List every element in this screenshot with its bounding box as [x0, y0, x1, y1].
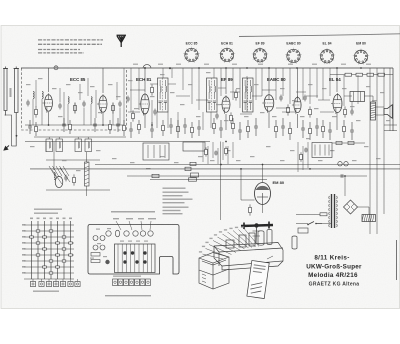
wire	[316, 68, 318, 98]
capacitor tone	[304, 148, 308, 153]
value label	[330, 150, 335, 151]
tube EABC80 demodulator/AF	[262, 93, 274, 113]
wire	[297, 114, 299, 128]
tag hanger line	[267, 256, 273, 259]
resistor volume divider	[287, 104, 290, 115]
title Ansicht von unten gesehen	[111, 211, 155, 213]
wire	[45, 142, 47, 153]
tube EF89 IF amplifier	[220, 95, 230, 114]
value label	[206, 72, 211, 73]
capacitor	[93, 118, 97, 132]
wire	[116, 82, 118, 100]
pointer number labels	[199, 251, 202, 252]
wire detector	[164, 145, 166, 158]
wire trimmer	[55, 66, 57, 68]
value label	[280, 88, 285, 89]
wire	[232, 68, 234, 100]
resistor	[138, 120, 141, 134]
coil winding	[59, 142, 60, 148]
wire speaker return	[376, 114, 385, 116]
junction node B+	[169, 68, 171, 70]
value label	[244, 116, 249, 117]
coil L1 UKW input	[33, 91, 34, 98]
capacitor AF	[214, 151, 218, 156]
coil hole 2	[93, 245, 98, 250]
trimmer screw	[135, 260, 138, 263]
value label	[66, 84, 71, 85]
value label	[272, 116, 277, 117]
leader lines	[116, 221, 151, 230]
pointer leader lines fan	[203, 229, 260, 259]
wire	[306, 95, 318, 97]
trimmer screw	[131, 251, 134, 254]
wire	[87, 137, 89, 139]
grommet	[105, 260, 109, 264]
value label	[210, 160, 215, 161]
wire B+ rail	[369, 68, 371, 220]
capacitor	[58, 103, 62, 110]
wire	[329, 68, 331, 96]
IF transformer can Fi III	[243, 78, 254, 112]
capacitor	[28, 120, 32, 134]
dipole impedance label 240 ohm	[10, 88, 12, 97]
resistor UKW grid	[35, 106, 38, 117]
value label	[314, 108, 319, 109]
output transformer	[350, 92, 365, 102]
tone control network box	[312, 143, 332, 158]
wire tone control	[324, 145, 326, 156]
value label	[300, 116, 305, 117]
wire	[130, 89, 145, 91]
AVC bus wire	[30, 168, 400, 170]
wire	[343, 75, 345, 106]
value label	[116, 96, 121, 97]
value label	[224, 120, 229, 121]
negative feedback line	[332, 142, 365, 144]
coil winding	[49, 142, 50, 148]
coil	[91, 97, 92, 104]
capacitor AGC	[126, 96, 130, 103]
tuning gang section (hatched)	[85, 162, 90, 186]
wire	[182, 68, 184, 90]
capacitor EF89 cathode	[215, 113, 219, 120]
junction	[246, 67, 248, 69]
wire to speaker	[376, 106, 385, 108]
tuning capacitor block (hatched)	[115, 244, 156, 273]
wire diode	[297, 68, 299, 97]
value label	[98, 112, 103, 113]
wire	[318, 99, 330, 101]
wire	[376, 215, 378, 234]
coil winding	[78, 142, 79, 148]
resistor ECH81 screen	[151, 84, 154, 95]
wire	[79, 84, 81, 100]
antenna symbol	[117, 35, 127, 47]
wire	[369, 220, 371, 234]
wire tube b anode	[102, 68, 104, 93]
value label	[198, 156, 203, 157]
capacitor	[150, 122, 154, 138]
coil winding	[88, 142, 89, 148]
value label	[236, 88, 241, 89]
wire	[202, 112, 204, 130]
wire	[210, 112, 212, 128]
resistor	[309, 122, 312, 140]
wire tube b cathode	[102, 113, 104, 125]
junction	[225, 141, 227, 143]
wire EM80 cathode	[262, 205, 264, 214]
chassis/ground bus wire	[25, 141, 210, 143]
alignment grid chart	[24, 221, 74, 279]
wire	[275, 68, 277, 100]
wire EL84 cathode	[336, 112, 338, 130]
capacitor detector	[279, 95, 283, 102]
value label	[250, 156, 255, 157]
wire	[307, 142, 309, 168]
value label	[236, 160, 241, 161]
wire detector	[147, 145, 149, 158]
value label	[260, 112, 265, 113]
wire	[59, 88, 61, 102]
wire down to chassis view	[220, 142, 222, 221]
value label	[350, 106, 355, 107]
wire	[130, 68, 132, 112]
wire EF89 cathode	[225, 114, 227, 130]
wire	[212, 142, 214, 158]
junction	[336, 67, 338, 69]
wire	[369, 215, 371, 221]
wire	[95, 90, 97, 118]
wire	[151, 100, 153, 128]
IF transformer can Fi I	[158, 78, 169, 112]
wire	[276, 107, 290, 109]
tiny labels along top border	[133, 64, 138, 65]
value label	[322, 88, 327, 89]
value label	[90, 86, 95, 87]
resistor AF grid leak	[309, 106, 312, 117]
capacitor UKW	[26, 100, 30, 107]
capacitor	[328, 122, 332, 140]
terminal strip below chassis	[113, 279, 151, 286]
wire	[112, 103, 114, 125]
wire gang to chassis	[86, 186, 88, 196]
resistor	[343, 120, 346, 138]
trimmer capacitor UKW	[54, 66, 58, 70]
wire detector	[159, 145, 161, 158]
wire tone control	[314, 145, 316, 156]
trimmer screw	[123, 260, 126, 263]
capacitor	[341, 174, 343, 178]
resistor	[109, 120, 112, 134]
wire	[217, 148, 219, 164]
wire	[176, 95, 190, 97]
value label	[332, 116, 337, 117]
pencil line (scan mark)	[239, 34, 400, 37]
electrolytic filter capacitor 50+50uF	[362, 215, 376, 222]
value label	[170, 92, 175, 93]
wire	[232, 142, 234, 158]
junction	[262, 164, 264, 166]
wire	[302, 146, 304, 170]
coil oscillator	[68, 97, 69, 104]
wire AM ground bus	[46, 189, 110, 191]
tube socket bottom view EM 80	[353, 49, 369, 65]
resistor	[247, 120, 250, 138]
wire	[218, 87, 226, 89]
hanging schematic tag	[247, 260, 269, 298]
wire	[123, 68, 125, 125]
fuse	[320, 213, 327, 216]
ferrite rod / oscillator can	[55, 176, 63, 187]
value label	[352, 160, 357, 161]
wire	[12, 145, 17, 147]
wire	[213, 68, 215, 78]
value label	[58, 116, 63, 117]
resistor	[232, 118, 235, 134]
wire	[351, 101, 353, 110]
value label	[96, 150, 101, 151]
leader labels above chassis	[113, 218, 119, 219]
coil filter	[54, 172, 55, 179]
wave band switch contacts	[49, 166, 69, 176]
resistor	[162, 120, 165, 136]
wire	[196, 99, 208, 101]
value label	[254, 84, 259, 85]
B+ decoupling resistor chain	[330, 73, 393, 76]
capacitor	[303, 95, 307, 102]
grid column headers	[30, 218, 33, 220]
resistor	[191, 122, 194, 138]
wire	[220, 68, 222, 96]
grid row markers	[22, 224, 26, 226]
capacitor	[183, 118, 187, 134]
value label	[306, 138, 311, 139]
capacitor	[64, 175, 68, 182]
resistor EF89 screen	[235, 89, 238, 100]
wire	[252, 95, 262, 97]
value label	[180, 104, 185, 105]
value label	[342, 88, 347, 89]
value label	[356, 120, 361, 121]
wire EM80 grid	[240, 169, 242, 200]
resistor	[69, 120, 72, 134]
wire	[150, 83, 158, 85]
coil L2	[42, 91, 43, 98]
wire	[41, 99, 43, 125]
wire	[48, 137, 50, 139]
oscillator coil bump on top border	[143, 65, 151, 68]
wire	[239, 68, 241, 108]
resistor AF	[205, 147, 208, 156]
value label	[76, 170, 81, 171]
ground arrow	[4, 146, 9, 151]
resistor EL84 cathode	[344, 106, 347, 117]
wire	[74, 103, 76, 113]
value label	[38, 78, 43, 79]
wire	[357, 75, 359, 104]
junction	[309, 168, 311, 170]
tube socket bottom view EABC 80	[285, 48, 301, 64]
capacitor	[281, 118, 285, 136]
electrolytic can hole	[115, 230, 119, 237]
heater bus wire	[95, 164, 400, 166]
pilot lamp 1	[338, 162, 342, 166]
dial lamp bracket rects	[91, 253, 100, 257]
value label	[112, 158, 117, 159]
alignment data text block	[163, 188, 186, 189]
resistor EF89 cathode	[230, 112, 233, 123]
IF can hole 1	[100, 236, 105, 241]
value label	[292, 100, 297, 101]
wire tone control	[319, 145, 321, 156]
wire	[230, 91, 240, 93]
wire EL84 anode	[336, 68, 338, 92]
wire	[35, 80, 37, 107]
wire	[246, 76, 248, 112]
junction	[344, 175, 346, 177]
value label	[318, 160, 323, 161]
resistor on return bus	[152, 174, 159, 177]
wire EM80 supply	[262, 165, 264, 183]
resistor feedback	[336, 141, 342, 144]
wire	[53, 142, 55, 171]
resistor on dial lamp line	[189, 178, 197, 181]
junction	[360, 67, 362, 69]
wire tube a cathode	[48, 112, 50, 125]
wire right margin	[396, 240, 398, 280]
wire	[368, 207, 370, 215]
wire	[167, 112, 169, 128]
trimmer screw	[123, 251, 126, 254]
IF transformer can Fi II	[207, 78, 218, 112]
capacitor	[219, 120, 223, 138]
value label	[30, 146, 35, 147]
value label	[146, 168, 151, 169]
capacitor	[238, 122, 242, 140]
resistor EM80 target	[249, 204, 252, 215]
wire	[255, 68, 257, 100]
value label	[130, 162, 135, 163]
coil can L3 (AM band)	[46, 139, 53, 152]
wire	[202, 142, 204, 162]
capacitor	[82, 101, 86, 108]
wire	[372, 96, 374, 102]
coil can L6 (AM band)	[85, 139, 92, 152]
wire to output transformer	[365, 95, 374, 97]
junction	[48, 124, 50, 126]
value label	[188, 84, 193, 85]
capacitor	[169, 118, 173, 134]
capacitor	[118, 101, 122, 108]
socket hole	[140, 231, 145, 236]
tuning shaft and flywheel bar	[241, 222, 273, 244]
value label	[290, 150, 295, 151]
wire	[344, 95, 352, 97]
wire EF89 anode	[225, 68, 227, 94]
wire	[83, 108, 85, 125]
value label	[380, 92, 385, 93]
wire B+ rail	[383, 68, 385, 214]
resistor on AVC bus	[185, 167, 191, 170]
resistor tone network	[191, 173, 199, 177]
value label	[386, 120, 391, 121]
chassis internal labels	[96, 229, 100, 230]
trimmer squares bottom row	[30, 279, 80, 287]
dial lamp wire	[150, 179, 267, 181]
socket hole	[133, 231, 138, 236]
capacitor	[129, 122, 133, 138]
wire right border upper	[392, 68, 394, 131]
wire	[302, 68, 304, 100]
B- return bus wire	[127, 175, 367, 177]
caption Teile UKW	[33, 291, 59, 292]
resistor network right	[190, 162, 196, 165]
junction	[102, 124, 104, 126]
UKW tuner dashed enclosure	[22, 68, 127, 130]
dial scale lines on cabinet	[202, 274, 206, 283]
junction	[225, 67, 227, 69]
value label	[134, 108, 139, 109]
wire	[309, 68, 311, 104]
wire ECH81 anode	[144, 68, 146, 92]
value label	[364, 146, 369, 147]
wire	[138, 68, 140, 110]
resistor	[73, 174, 76, 185]
junction node antenna	[16, 135, 18, 137]
tube socket bottom view EL 84	[319, 48, 335, 64]
junction	[169, 67, 171, 69]
junction	[144, 67, 146, 69]
tube socket bottom view EF 89	[252, 47, 268, 63]
value label	[62, 160, 67, 161]
wire	[297, 142, 299, 172]
wire	[63, 92, 65, 125]
value label	[266, 146, 271, 147]
wire	[87, 78, 89, 96]
value label	[366, 86, 371, 87]
potentiometer volume	[300, 152, 303, 162]
wire	[58, 137, 60, 139]
wire rectifier to cap	[358, 206, 370, 208]
FM folded dipole antenna	[3, 67, 19, 147]
note text block (Achtung service notes)	[38, 39, 103, 41]
value label	[226, 150, 231, 151]
wire tube a anode	[48, 68, 50, 92]
tube socket bottom view ECC 85	[183, 47, 199, 63]
tube EL84 output pentode	[331, 93, 342, 114]
wire detector	[153, 145, 155, 158]
wire	[344, 176, 346, 196]
wire gang	[86, 152, 88, 162]
dial stringing diagram title	[34, 209, 62, 210]
junction	[296, 67, 298, 69]
value label	[196, 116, 201, 117]
IF can hole 2	[100, 245, 105, 250]
perspective chassis drawing (chassis sketch)	[199, 230, 297, 290]
tube EM80 magic eye indicator	[255, 183, 271, 205]
resistor	[289, 122, 292, 140]
value label	[52, 88, 57, 89]
resistor	[123, 120, 126, 136]
trimmer screw	[143, 251, 146, 254]
capacitor	[315, 118, 319, 136]
wire	[191, 68, 193, 104]
switch wafer diagonals	[52, 168, 70, 184]
wire	[222, 142, 224, 160]
value label	[26, 84, 31, 85]
de-emphasis network box	[183, 142, 205, 151]
tube ECC85 triode a (UKW)	[43, 93, 53, 112]
